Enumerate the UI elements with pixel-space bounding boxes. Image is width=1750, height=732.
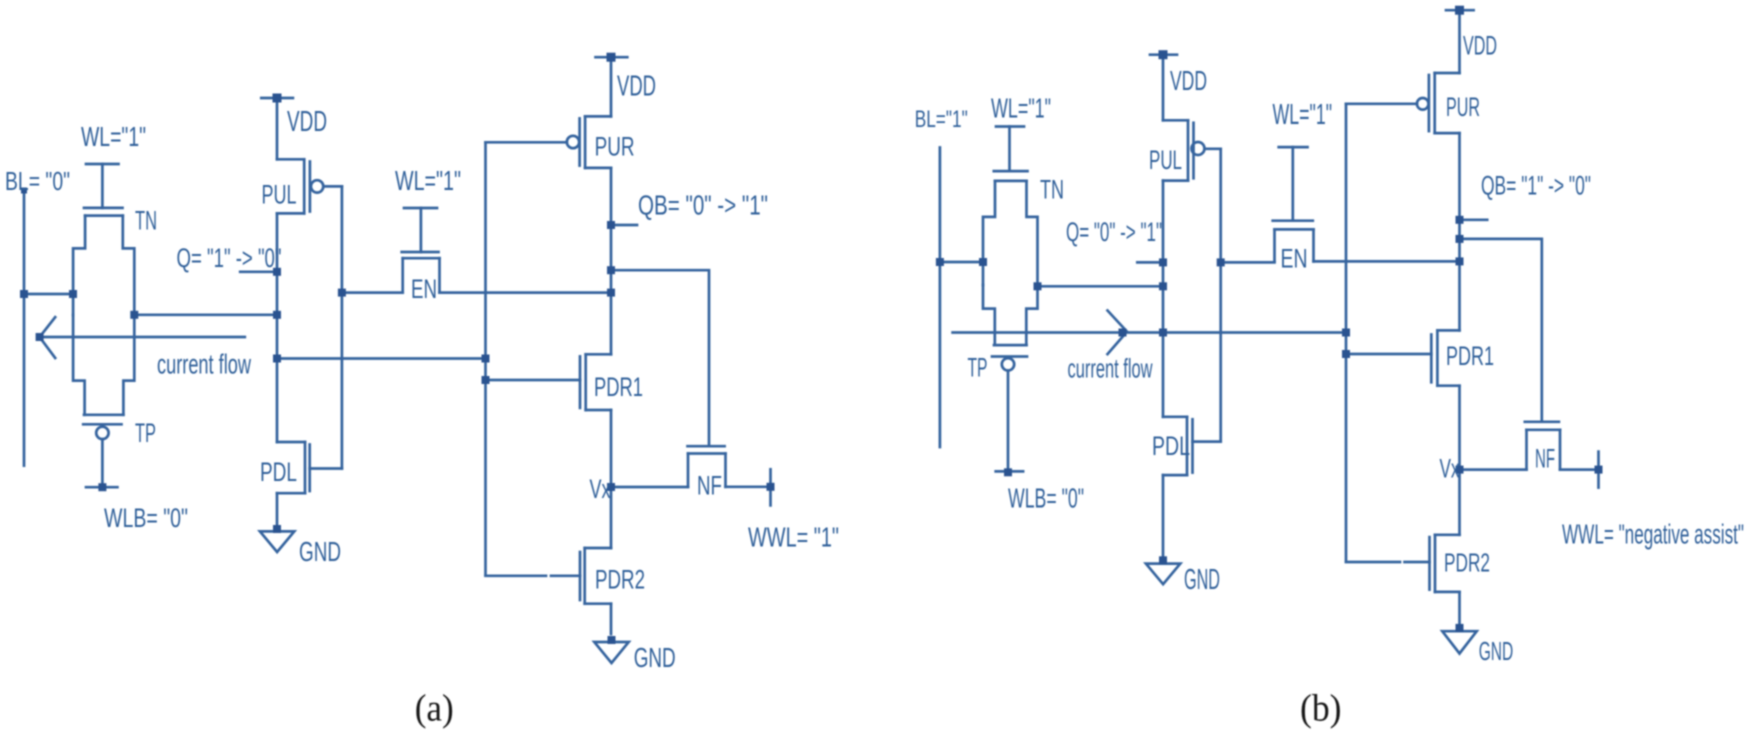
- svg-text:QB= "0" -> "1": QB= "0" -> "1": [638, 190, 768, 221]
- svg-text:PUL: PUL: [262, 180, 297, 210]
- wire BL to pass-gate (a): [24, 293, 73, 296]
- junction node Q lead (b): [1159, 258, 1167, 266]
- svg-text:BL="1": BL="1": [915, 106, 968, 133]
- junction current flow arrow tip (a): [36, 333, 44, 341]
- transistor PDR2 (b) pull-down NMOS: [1346, 535, 1460, 626]
- wire QB to NF gate (b): [1460, 239, 1542, 420]
- svg-text:NF: NF: [697, 471, 722, 501]
- wire BL to pass-gate (b): [940, 261, 983, 264]
- junction PDR net long wire (b): [1342, 329, 1350, 337]
- svg-text:GND: GND: [1184, 564, 1220, 596]
- wire NF to WWL terminal (a): [726, 485, 771, 488]
- net PUL/PDL gate vertical (b): [1219, 149, 1222, 442]
- svg-text:TN: TN: [135, 206, 157, 236]
- transistor PUR (b) pull-up PMOS: [1346, 73, 1460, 133]
- junction gate net EN wire (a): [338, 289, 346, 297]
- junction GND right (a): [608, 636, 616, 644]
- wire Vx to NF (a): [611, 486, 688, 489]
- svg-text:PDR2: PDR2: [1444, 548, 1490, 578]
- transistor NF (b) NMOS: [1525, 422, 1560, 470]
- junction QB label lead (b): [1456, 216, 1464, 224]
- junction QB NF-gate wire (a): [607, 266, 615, 274]
- net BL (a) bit line: [23, 191, 26, 466]
- svg-text:VDD: VDD: [1170, 65, 1207, 96]
- junction gate net EN wire (b): [1217, 258, 1225, 266]
- wire Q to PDR gates net (a): [277, 357, 486, 360]
- transistor EN (a) NMOS: [402, 208, 440, 293]
- junction GND left (a): [273, 525, 281, 533]
- power VDD terminal bar (b) right inverter: [1446, 9, 1474, 12]
- net QB vertical (a): [610, 168, 613, 354]
- junction pass-gate left leg (b): [979, 258, 987, 266]
- junction pass-gate right leg (b): [1034, 282, 1042, 290]
- current flow arrowhead (b): [1108, 311, 1128, 355]
- junction node Vx (a): [607, 483, 615, 491]
- node QB label lead (a): [611, 224, 637, 227]
- svg-text:WL="1": WL="1": [395, 165, 461, 196]
- junction BL wire (a): [20, 290, 28, 298]
- net PUL/PDL gate vertical (a): [341, 186, 344, 468]
- svg-text:PUR: PUR: [1446, 92, 1480, 122]
- svg-text:VDD: VDD: [1463, 31, 1497, 61]
- svg-text:current flow: current flow: [1068, 354, 1153, 384]
- current flow arrowhead (a): [40, 317, 56, 358]
- transistor PDR2 (a) pull-down NMOS: [486, 548, 612, 634]
- junction Q long wire (b): [1159, 329, 1167, 337]
- junction PDR net PDR1 gate (a): [482, 376, 490, 384]
- junction node Q wire (b): [1159, 282, 1167, 290]
- svg-text:PDR2: PDR2: [595, 565, 645, 595]
- junction GND right (b): [1456, 624, 1464, 632]
- junction PDR net PDR1 gate (b): [1342, 350, 1350, 358]
- junction WLB terminal (a): [98, 483, 106, 491]
- net Q vertical (a): [276, 213, 279, 442]
- junction pass-gate left leg (a): [69, 290, 77, 298]
- svg-text:PDR1: PDR1: [594, 372, 643, 402]
- svg-text:WL="1": WL="1": [81, 121, 146, 152]
- junction current flow arrow tip (b): [1119, 329, 1127, 337]
- transistor PUR (a) pull-up PMOS: [486, 116, 612, 167]
- wire VDD to PUR (a): [610, 57, 613, 116]
- net Q vertical (b): [1162, 181, 1165, 417]
- junction GND left (b): [1159, 556, 1167, 564]
- wire VDD to PUL (b): [1162, 55, 1165, 121]
- ground GND symbol (a) left: [260, 531, 294, 552]
- junction QB EN wire (b): [1456, 257, 1464, 265]
- net BL (b) bit line: [939, 148, 942, 448]
- wire pass-gate to node Q (b): [1038, 285, 1164, 288]
- junction Q long wire (a): [273, 355, 281, 363]
- svg-text:TN: TN: [1040, 175, 1064, 205]
- ground GND symbol (b) right: [1442, 631, 1476, 653]
- svg-text:WLB= "0": WLB= "0": [1008, 483, 1084, 514]
- transistor PUL (a) pull-up PMOS: [277, 159, 342, 213]
- junction BL top end (a): [21, 188, 27, 194]
- junction WWL terminal (a): [767, 483, 775, 491]
- ground GND symbol (b) left: [1146, 564, 1180, 585]
- svg-text:TP: TP: [135, 418, 156, 448]
- junction WLB terminal (b): [1004, 468, 1012, 476]
- svg-text:BL= "0": BL= "0": [5, 166, 70, 196]
- terminal WWL (a): [769, 469, 772, 505]
- current flow arrow line (a): [40, 336, 245, 339]
- svg-text:WWL= "1": WWL= "1": [748, 522, 839, 553]
- svg-text:GND: GND: [299, 536, 341, 567]
- junction WWL terminal (b): [1595, 466, 1603, 474]
- svg-text:WL="1": WL="1": [991, 93, 1051, 124]
- wire NF to WWL terminal (b): [1560, 468, 1599, 471]
- junction pass-gate right leg (a): [130, 311, 138, 319]
- transistor PDR1 (b) pull-down NMOS: [1346, 330, 1460, 385]
- svg-text:Q= "0" -> "1": Q= "0" -> "1": [1066, 217, 1162, 247]
- svg-text:NF: NF: [1535, 444, 1555, 474]
- svg-text:PDL: PDL: [260, 457, 297, 487]
- junction VDD terminal left (b): [1159, 50, 1168, 59]
- svg-text:GND: GND: [634, 642, 676, 673]
- svg-text:QB= "1" -> "0": QB= "1" -> "0": [1481, 171, 1591, 201]
- svg-text:WLB= "0": WLB= "0": [104, 503, 188, 533]
- terminal WLB (b): [996, 470, 1023, 473]
- node Q label lead (b): [1137, 261, 1163, 264]
- junction BL wire (b): [936, 258, 944, 266]
- transistor PDR1 (a) pull-down NMOS: [486, 354, 612, 410]
- wire pass-gate to node Q (a): [134, 313, 277, 316]
- net QB vertical (b): [1458, 133, 1461, 330]
- svg-text:VDD: VDD: [287, 106, 327, 138]
- net Vx vertical (a): [610, 410, 613, 548]
- wire Q to PDR gates net with current flow (b): [953, 331, 1346, 334]
- wire gate net to EN (b): [1221, 261, 1275, 264]
- svg-text:EN: EN: [411, 274, 437, 304]
- svg-text:Vx: Vx: [1440, 454, 1460, 484]
- transistor TP (a) pass PMOS: [73, 315, 134, 487]
- svg-text:current flow: current flow: [157, 349, 252, 380]
- terminal WLB (a): [86, 486, 117, 489]
- svg-text:WWL= "negative assist": WWL= "negative assist": [1562, 519, 1744, 550]
- node Q label lead (a): [240, 270, 277, 273]
- svg-text:(a): (a): [415, 688, 454, 730]
- junction node Q wire (a): [273, 311, 281, 319]
- net PDR gate vertical (b): [1345, 104, 1348, 562]
- wire Vx to NF (b): [1460, 468, 1527, 471]
- svg-text:VDD: VDD: [617, 71, 656, 103]
- power VDD terminal bar (a) right inverter: [596, 56, 628, 59]
- wire QB to NF gate (a): [611, 270, 709, 444]
- svg-text:PDR1: PDR1: [1446, 341, 1494, 371]
- transistor PUL (b) pull-up PMOS: [1163, 120, 1221, 180]
- svg-text:TP: TP: [968, 353, 988, 383]
- node QB label lead (b): [1460, 218, 1488, 221]
- junction QB NF-gate wire (b): [1456, 235, 1464, 243]
- junction PDR net long wire (a): [482, 355, 490, 363]
- power VDD terminal bar (a) left inverter: [261, 97, 293, 100]
- terminal WWL (b): [1597, 452, 1600, 488]
- transistor PDL (a) pull-down NMOS: [277, 442, 342, 529]
- junction node Vx (b): [1456, 466, 1464, 474]
- svg-text:Q= "1" -> "0": Q= "1" -> "0": [177, 243, 282, 273]
- net Vx vertical (b): [1458, 386, 1461, 535]
- net PDR gate vertical (a): [484, 142, 487, 575]
- transistor EN (b) NMOS: [1273, 147, 1314, 261]
- svg-text:WL="1": WL="1": [1273, 99, 1333, 131]
- transistor TN (b) pass NMOS: [983, 127, 1038, 286]
- junction QB EN wire (a): [607, 289, 615, 297]
- wire gate net to EN (a): [342, 291, 403, 294]
- svg-text:PUR: PUR: [595, 132, 635, 162]
- ground GND symbol (a) right: [594, 642, 628, 663]
- transistor PDL (b) pull-down NMOS: [1163, 417, 1221, 561]
- transistor TP (b) pass PMOS: [983, 285, 1038, 471]
- wire VDD to PUL (a): [276, 98, 279, 159]
- svg-text:PUL: PUL: [1149, 145, 1182, 175]
- junction node Q lead (a): [273, 268, 281, 276]
- wire VDD to PUR (b): [1458, 10, 1461, 73]
- svg-text:PDL: PDL: [1152, 431, 1190, 461]
- junction VDD terminal right (b): [1455, 6, 1464, 15]
- wire EN to node QB (a): [440, 291, 612, 294]
- transistor TN (a) pass NMOS: [73, 164, 134, 315]
- transistor NF (a) NMOS: [688, 446, 726, 487]
- svg-text:EN: EN: [1281, 244, 1308, 274]
- svg-text:Vx: Vx: [590, 474, 611, 504]
- power VDD terminal bar (b) left inverter: [1150, 53, 1177, 56]
- junction QB label lead (a): [607, 221, 615, 229]
- junction VDD terminal right (a): [607, 53, 616, 62]
- svg-text:(b): (b): [1300, 688, 1342, 730]
- wire EN to node QB (b): [1314, 260, 1460, 263]
- svg-text:GND: GND: [1479, 636, 1514, 666]
- junction VDD terminal left (a): [273, 94, 282, 103]
